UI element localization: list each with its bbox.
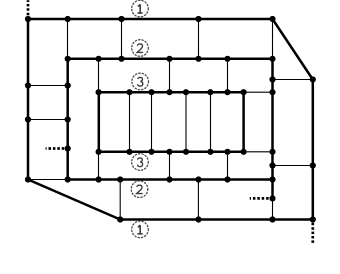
- node ring1 left y=85.2: [25, 82, 31, 88]
- ring 3 right side: [242, 92, 245, 152]
- wire ring2top-ring3top at x=227.6: [227, 59, 229, 92]
- node ring1 right y=79.3: [310, 76, 316, 82]
- node ring2 top-left corner: [65, 56, 71, 62]
- node ring2 top x=98.8: [96, 56, 102, 62]
- wire ring3 interior vertical x=151.6: [151, 92, 153, 152]
- node ring1 top x=198.4: [195, 16, 201, 22]
- node ring3 bottom x=227.6: [224, 149, 230, 155]
- wire ring3 interior vertical x=186: [185, 92, 187, 152]
- node ring2 right y=79.3: [269, 76, 275, 82]
- node ring2 bottom-right corner: [269, 176, 275, 182]
- node ring2 left dash node: [65, 145, 71, 151]
- ring 3 left side: [98, 92, 101, 152]
- wire ring1top-ring2top at x=198.4: [198, 19, 200, 59]
- wire ring1top-ring2top at x=67.7: [67, 19, 69, 59]
- wire ring3top extension to ring2right: [244, 91, 273, 93]
- wire right rung y=79.3: [273, 79, 313, 81]
- ring 2 right side: [271, 59, 274, 180]
- node ring2 bottom x=98.8: [96, 176, 102, 182]
- wire ring3bottom-ring2bottom at x=98.8: [98, 152, 100, 180]
- node ring2 bottom x=169.7: [166, 176, 172, 182]
- node ring2 right y=165.3: [269, 162, 275, 168]
- node ring3 top x=129.4: [126, 89, 132, 95]
- ring 2 bottom side: [68, 178, 273, 181]
- wire ring2top-ring3top at x=169.7: [169, 59, 171, 92]
- node ring3 bottom-left corner: [96, 149, 102, 155]
- node ring1 bottom x=198.4: [195, 216, 201, 222]
- wire ring3bottom-ring2bottom at x=227.6: [227, 152, 229, 180]
- label circle 1 top: [132, 0, 149, 17]
- wire right rung y=165.3: [273, 165, 313, 167]
- ring 2 left side: [66, 59, 69, 180]
- wire left rung y=85.2: [28, 85, 68, 87]
- ring 1 left side: [27, 19, 30, 180]
- ring 3 top side: [99, 91, 244, 94]
- wire ring1top-ring2top at x=272.4: [272, 19, 274, 59]
- ring 1 top-right diagonal: [273, 19, 313, 80]
- wire ring3 interior vertical x=209.9: [210, 92, 212, 152]
- dashed continuation stub right lower: [250, 197, 269, 200]
- thick spoke ring2 corner to dash node: [271, 180, 274, 199]
- dashed continuation stub left middle: [46, 147, 65, 150]
- wire dashnode-ring1bottom at x=272.4: [272, 198, 274, 219]
- label circle 2 bottom: [131, 181, 148, 198]
- node ring2 top-right corner: [269, 56, 275, 62]
- label digit 3 top: [138, 77, 143, 86]
- wire ring3 interior vertical x=129.4: [129, 92, 131, 152]
- label digit 2 top: [137, 44, 143, 52]
- node ring2 bottom x=198.4: [195, 176, 201, 182]
- node ring1 top x=28: [25, 16, 31, 22]
- label digit 2 bottom: [137, 185, 143, 193]
- node ring2 left y=119.5: [65, 116, 71, 122]
- node ring2 left y=85.2: [65, 82, 71, 88]
- node ring2 bottom x=227.6: [224, 176, 230, 182]
- node ring1 top x=121.7: [118, 16, 124, 22]
- node ring3 bottom x=186: [183, 149, 189, 155]
- wire ring3bottom extension to ring2right: [244, 151, 273, 153]
- label circle 2 top: [132, 40, 149, 57]
- node ring3 bottom x=169.7: [166, 149, 172, 155]
- label circle 3 bottom: [132, 154, 149, 171]
- dashed continuation stub top-left: [27, 0, 30, 15]
- label digit 1 bottom: [138, 225, 143, 234]
- node ring3 top x=186: [183, 89, 189, 95]
- node ring3 top-right corner: [241, 89, 247, 95]
- node ring1 bottom x=272.4: [269, 216, 275, 222]
- label digit 3 bottom: [137, 158, 142, 167]
- wire ring1top-ring2top at x=121.7: [121, 19, 123, 59]
- wire ring2bottom-ring1bottom at x=198.4: [197, 180, 199, 220]
- node ring1 left bottom corner: [25, 176, 31, 182]
- wire left rung y=179.5: [28, 179, 68, 181]
- node ring3 bottom x=151.6: [148, 149, 154, 155]
- wire ring2bottom-ring1bottom at x=120.2: [119, 180, 121, 220]
- node ring2 top x=227.6: [224, 56, 230, 62]
- node ring3 top x=151.6: [148, 89, 154, 95]
- node ring2 right y=151.8: [269, 149, 275, 155]
- node ring2 right y=92.2: [269, 89, 275, 95]
- label circle 1 bottom: [132, 221, 149, 238]
- node ring1 right y=165.3: [310, 162, 316, 168]
- ring 1 right side: [312, 80, 315, 220]
- node right dash node: [269, 195, 275, 201]
- node ring2 top x=121.7: [118, 56, 124, 62]
- dashed continuation stub bottom-right: [311, 223, 314, 245]
- label digit 1 top: [138, 4, 143, 13]
- node ring3 top x=227.6: [224, 89, 230, 95]
- wire left rung y=119.5: [28, 119, 68, 121]
- node ring2 top x=198.4: [195, 56, 201, 62]
- wire ring2top-ring3top at x=98.8: [98, 59, 100, 92]
- node ring2 bottom x=120.2: [117, 176, 123, 182]
- ring 1 bottom-left diagonal: [28, 180, 120, 220]
- node ring3 top-left corner: [96, 89, 102, 95]
- node ring1 bottom x=120.2: [117, 216, 123, 222]
- node ring3 bottom-right corner: [241, 149, 247, 155]
- node ring3 bottom x=129.4: [126, 149, 132, 155]
- node ring3 top x=209.9: [207, 89, 213, 95]
- ring 2 top side: [68, 58, 273, 61]
- node ring3 bottom x=209.9: [207, 149, 213, 155]
- node ring1 bottom-right corner: [310, 216, 316, 222]
- label circle 3 top: [132, 73, 149, 90]
- node ring2 bottom-left corner: [65, 176, 71, 182]
- ring 1 bottom side: [120, 218, 313, 221]
- node ring1 left y=119.5: [25, 116, 31, 122]
- node ring3 top x=169.7: [166, 89, 172, 95]
- ring 1 top side: [28, 18, 273, 21]
- node ring1 top-right corner: [269, 16, 275, 22]
- node ring2 top x=169.7: [166, 56, 172, 62]
- wire ring3bottom-ring2bottom at x=169.7: [169, 152, 171, 180]
- node ring1 top x=67.7: [65, 16, 71, 22]
- ring 3 bottom side: [99, 151, 244, 154]
